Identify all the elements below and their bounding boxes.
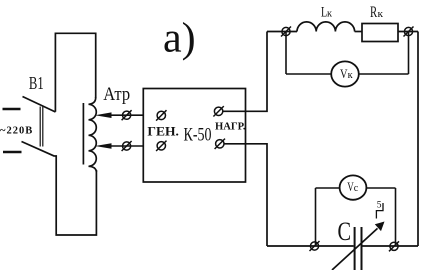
svg-text:а): а) bbox=[163, 16, 196, 62]
terminal on lower tap wire bbox=[122, 141, 132, 151]
svg-text:к: к bbox=[348, 70, 354, 81]
wire right vertical bbox=[417, 32, 419, 247]
wire tap upper bbox=[111, 114, 143, 116]
svg-text:ГЕН.: ГЕН. bbox=[147, 125, 179, 139]
voltmeter Vk bbox=[331, 61, 359, 86]
wire NAGR lower to bottom branch bbox=[224, 144, 267, 246]
K-50 terminal GEN lower bbox=[156, 141, 166, 151]
wire Vk stub left bbox=[285, 32, 287, 75]
moving contact step mark bbox=[376, 203, 383, 219]
K-50 terminal NAGR upper bbox=[213, 106, 223, 116]
terminal bottom-left bbox=[310, 241, 320, 251]
wire NAGR upper to top branch bbox=[223, 32, 267, 112]
wire left loop (switch to transformer) bbox=[55, 33, 95, 112]
wire Vc horizontal bbox=[316, 187, 341, 189]
switch B1 linkage bbox=[40, 107, 43, 147]
switch B1 fixed contact upper bbox=[3, 108, 21, 110]
svg-text:к: к bbox=[378, 8, 384, 20]
svg-text:В1: В1 bbox=[29, 73, 44, 93]
wire Vk stub right bbox=[408, 32, 410, 75]
resistor Rk bbox=[362, 24, 398, 42]
wire tap lower bbox=[111, 145, 143, 147]
terminal top-right bbox=[404, 27, 414, 37]
wire Lk to Rk bbox=[355, 31, 362, 33]
svg-text:С: С bbox=[338, 217, 352, 246]
wire Vc stub right bbox=[395, 188, 397, 246]
inductor Lk bbox=[297, 22, 355, 32]
wire bottom loop bbox=[55, 156, 97, 235]
wire top branch left bbox=[267, 31, 297, 33]
K-50 terminal GEN upper bbox=[156, 110, 166, 120]
svg-text:НАГР.: НАГР. bbox=[215, 121, 246, 133]
switch B1 fixed contact lower bbox=[3, 151, 22, 153]
svg-text:5: 5 bbox=[377, 200, 382, 210]
wire Vk horizontal bbox=[286, 73, 332, 75]
wire Vc stub left bbox=[315, 188, 317, 246]
switch B1 blade upper bbox=[23, 97, 56, 113]
capacitor C plate left bbox=[354, 227, 356, 270]
variable capacitor arrow bbox=[332, 228, 378, 270]
switch B1 blade lower bbox=[22, 142, 55, 157]
wire Rk to right corner bbox=[398, 31, 418, 33]
K-50 terminal NAGR lower bbox=[215, 139, 225, 149]
K-50 box bbox=[143, 89, 245, 183]
svg-text:Атр: Атр bbox=[103, 84, 130, 105]
tap arrow lower bbox=[95, 143, 112, 149]
svg-text:c: c bbox=[354, 183, 359, 194]
terminal bottom-right bbox=[389, 241, 399, 251]
svg-text:~220В: ~220В bbox=[0, 126, 33, 137]
autotransformer core bar bbox=[82, 103, 84, 165]
autotransformer winding bbox=[89, 97, 97, 172]
svg-text:R: R bbox=[370, 4, 377, 21]
terminal top-left bbox=[281, 27, 291, 37]
svg-text:К-50: К-50 bbox=[184, 126, 212, 146]
tap arrow upper bbox=[95, 112, 112, 118]
capacitor C plate right bbox=[361, 227, 363, 270]
voltmeter Vc bbox=[340, 175, 367, 199]
svg-text:к: к bbox=[327, 8, 333, 20]
wire bottom branch bbox=[267, 245, 354, 247]
terminal on upper tap wire bbox=[122, 110, 132, 120]
